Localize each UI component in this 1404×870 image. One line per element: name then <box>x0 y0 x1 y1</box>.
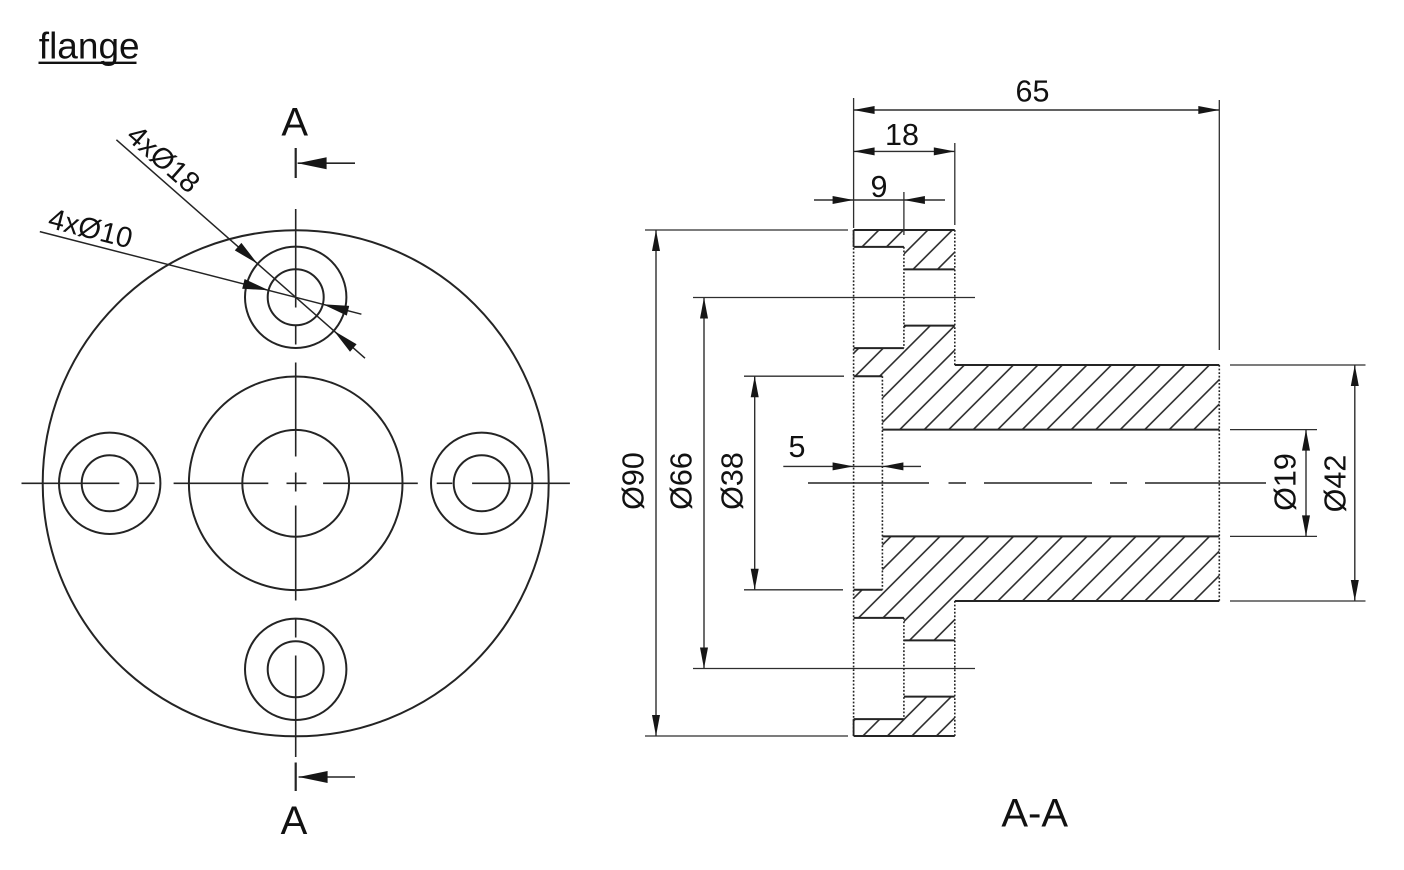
svg-text:9: 9 <box>871 170 888 204</box>
svg-text:flange: flange <box>39 26 140 67</box>
svg-text:Ø90: Ø90 <box>617 452 651 510</box>
svg-text:65: 65 <box>1016 75 1050 109</box>
svg-text:Ø38: Ø38 <box>716 452 750 510</box>
svg-text:18: 18 <box>885 118 919 152</box>
svg-text:A: A <box>281 799 308 843</box>
svg-text:Ø66: Ø66 <box>665 452 699 510</box>
svg-text:A-A: A-A <box>1001 791 1068 835</box>
svg-text:A: A <box>281 101 308 145</box>
svg-text:Ø42: Ø42 <box>1319 455 1353 513</box>
svg-text:5: 5 <box>789 430 806 464</box>
svg-text:Ø19: Ø19 <box>1269 453 1303 511</box>
